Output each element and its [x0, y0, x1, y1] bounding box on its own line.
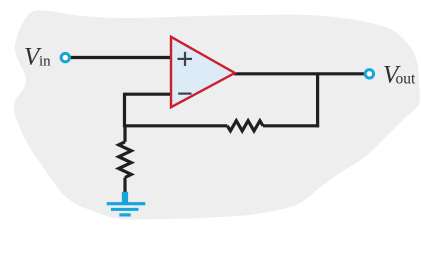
- svg-text:out: out: [396, 71, 417, 88]
- svg-text:in: in: [39, 54, 51, 70]
